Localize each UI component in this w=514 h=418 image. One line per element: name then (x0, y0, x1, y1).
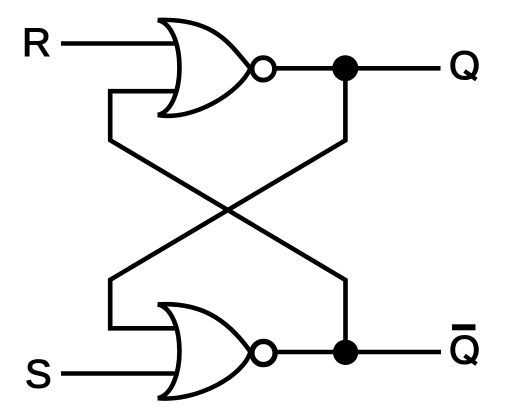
svg-text:O: O (449, 329, 480, 373)
wire R input (61, 41, 176, 46)
svg-text:O: O (449, 44, 480, 88)
junction dot on Q wire (332, 55, 358, 81)
svg-text:R: R (22, 21, 51, 65)
wire feedback from Q to U2 input (110, 69, 345, 329)
wire feedback from Q-bar to U1 input (110, 91, 345, 352)
NOR gate U2 body (bottom) (158, 304, 251, 398)
svg-text:S: S (25, 353, 52, 397)
junction dot on Q-bar wire (333, 340, 358, 365)
wire Q-bar output (275, 350, 442, 355)
NOR gate U2 output bubble (252, 341, 275, 364)
NOR gate U1 output bubble (252, 58, 274, 80)
label Q-bar (449, 324, 480, 372)
label Q (449, 44, 480, 88)
NOR gate U1 body (top) (158, 20, 251, 116)
wire S input (61, 371, 176, 376)
wire Q output (274, 66, 441, 71)
